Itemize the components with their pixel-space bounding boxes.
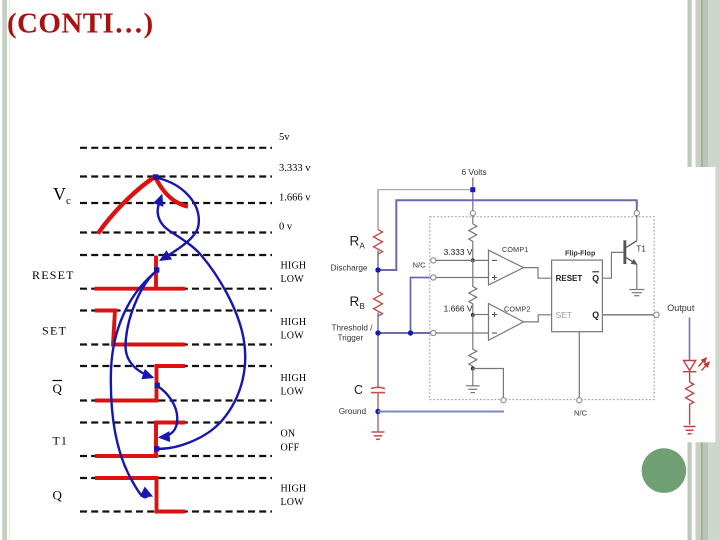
svg-text:LOW: LOW — [281, 331, 305, 342]
wire LED to resistor — [689, 372, 691, 382]
transistor T1 — [623, 240, 626, 264]
wire left rail top — [377, 190, 379, 230]
wave RESET pulse — [154, 256, 158, 289]
wire comp1 out to reset — [524, 268, 552, 279]
arrow Vc peak to RESET pulse — [156, 178, 199, 261]
ground symbol output — [684, 427, 696, 434]
svg-text:1.666 v: 1.666 v — [279, 193, 311, 204]
node trigger junction — [408, 330, 413, 335]
svg-text:c: c — [66, 195, 71, 207]
svg-text:N/C: N/C — [413, 260, 427, 269]
arrow RESET to Q — [111, 271, 157, 497]
svg-text:R: R — [350, 294, 360, 309]
blue event dots — [153, 174, 160, 451]
svg-text:RESET: RESET — [32, 268, 75, 282]
wave Vc charge curve — [98, 177, 155, 234]
wire trigger (blue) — [378, 332, 430, 334]
svg-text:6 Volts: 6 Volts — [462, 167, 487, 177]
wire FF bottom to NC — [578, 332, 580, 398]
red waveforms — [95, 177, 189, 512]
blue causality arrows — [111, 178, 245, 498]
wire RB to trigger node — [377, 313, 379, 387]
terminal collector circle — [634, 211, 639, 216]
resistor chain R2 — [469, 260, 477, 315]
divider chain wire top — [472, 216, 474, 224]
resistor RA — [374, 230, 383, 255]
terminal gnd circle — [501, 398, 506, 403]
wave RESET low line — [95, 287, 186, 291]
node trigger — [375, 330, 380, 335]
level value labels right side — [279, 132, 311, 508]
wire output down (blue) — [689, 318, 691, 360]
wire emitter down — [636, 264, 638, 289]
wave Vc discharge curve — [156, 179, 188, 207]
svg-text:Q: Q — [592, 274, 599, 284]
terminal output circle — [654, 312, 659, 317]
wire chain to ground symbol — [472, 369, 474, 386]
node 6V junction — [470, 187, 475, 192]
svg-text:SET: SET — [556, 310, 572, 320]
svg-text:OFF: OFF — [281, 442, 300, 453]
wave T1 — [95, 423, 185, 457]
node RESET edge — [154, 267, 159, 272]
wire comp2 plus input — [473, 314, 489, 316]
svg-text:Ground: Ground — [339, 407, 367, 416]
svg-text:A: A — [360, 242, 366, 251]
svg-text:Discharge: Discharge — [331, 264, 368, 273]
wave SET — [95, 311, 185, 345]
node T1 edge — [154, 446, 159, 451]
svg-text:HIGH: HIGH — [281, 317, 307, 328]
node ground — [375, 409, 380, 414]
svg-text:T1: T1 — [53, 434, 68, 448]
wave Q — [95, 478, 185, 512]
svg-text:N/C: N/C — [574, 409, 588, 418]
terminal NC circle — [431, 258, 436, 263]
svg-text:LOW: LOW — [281, 387, 305, 398]
wire comp1 plus input — [436, 277, 489, 279]
white panel of circuit image overlapping stripes — [682, 167, 715, 442]
svg-text:V: V — [53, 184, 66, 204]
wire cap to ground node — [377, 393, 379, 432]
green decorative circle bottom right — [642, 448, 687, 493]
wire comp1 minus input — [436, 259, 489, 261]
svg-text:1.666 V: 1.666 V — [444, 304, 473, 314]
node Q-bar edge — [155, 383, 160, 388]
svg-text:RESET: RESET — [556, 274, 583, 283]
svg-text:HIGH: HIGH — [281, 261, 307, 272]
resistor chain R1 — [469, 224, 477, 260]
resistor chain R3 — [469, 315, 477, 369]
row labels — [32, 184, 75, 503]
svg-text:C: C — [354, 383, 363, 397]
right green stripes — [688, 0, 692, 540]
wire comp2 out to set — [524, 315, 552, 322]
node tap 3.333 — [471, 258, 475, 262]
svg-text:Threshold /: Threshold / — [332, 324, 374, 333]
svg-text:Trigger: Trigger — [338, 334, 364, 343]
svg-text:0 v: 0 v — [279, 222, 293, 233]
terminal trigger2 circle — [431, 330, 436, 335]
wire comp2 minus input — [436, 332, 489, 334]
wire RA to discharge — [377, 251, 379, 292]
diode LED D1 — [683, 358, 710, 372]
svg-text:ON: ON — [281, 429, 296, 440]
wire discharge to collector (blue) — [378, 200, 637, 270]
node Vc peak — [153, 174, 159, 180]
svg-text:R: R — [350, 234, 360, 249]
ground symbol T1 — [629, 290, 644, 296]
svg-text:COMP2: COMP2 — [504, 304, 531, 313]
left green stripe — [2, 0, 7, 540]
svg-text:LOW: LOW — [281, 497, 305, 508]
wire trigger to comp1 plus (blue) — [411, 278, 431, 334]
wave Q-bar — [95, 366, 185, 401]
flip-flop box U1 — [552, 260, 603, 332]
resistor RB — [374, 292, 383, 317]
dashed IC boundary box — [430, 217, 654, 400]
node tap 1.666 — [471, 313, 475, 317]
ground symbol divider — [466, 386, 480, 393]
svg-text:Q: Q — [53, 381, 63, 396]
svg-text:3.333 v: 3.333 v — [279, 163, 311, 174]
wire chain bottom to pin — [473, 369, 504, 398]
svg-text:Q: Q — [592, 310, 599, 320]
svg-text:B: B — [360, 302, 365, 311]
op-amp COMP1 — [489, 250, 524, 285]
op-amp COMP2 — [489, 304, 524, 341]
node discharge — [375, 267, 380, 272]
svg-text:COMP1: COMP1 — [502, 245, 529, 254]
ground symbol left rail — [372, 432, 385, 439]
wire ground rail (blue) — [378, 411, 504, 413]
terminal trigger1 circle — [431, 275, 436, 280]
svg-text:3.333 V: 3.333 V — [444, 247, 473, 257]
wire 6V vertical — [472, 178, 474, 211]
arrow RESET to Q-bar — [125, 271, 156, 377]
svg-text:Flip-Flop: Flip-Flop — [565, 249, 596, 258]
svg-text:SET: SET — [42, 324, 67, 338]
terminal NC bottom circle — [577, 398, 582, 403]
node chain bottom — [471, 367, 475, 371]
wire Qbar to T1 base — [602, 252, 623, 278]
svg-text:5v: 5v — [279, 132, 290, 143]
svg-text:HIGH: HIGH — [281, 373, 307, 384]
wire Q output — [602, 314, 653, 316]
arrow Q-bar to T1 — [158, 386, 178, 437]
svg-text:HIGH: HIGH — [281, 484, 307, 495]
dashed level lines — [80, 148, 272, 512]
svg-text:Output: Output — [667, 303, 695, 313]
svg-text:T1: T1 — [636, 243, 646, 253]
resistor R load — [686, 382, 694, 425]
wire top rail to Vcc — [378, 189, 473, 191]
capacitor C — [371, 387, 385, 388]
arrow T1 to Vc discharge — [157, 196, 245, 449]
terminal Vcc circle — [470, 211, 475, 216]
svg-text:Q: Q — [53, 488, 63, 503]
svg-text:LOW: LOW — [281, 274, 305, 285]
svg-text:(CONTI…): (CONTI…) — [7, 8, 154, 40]
